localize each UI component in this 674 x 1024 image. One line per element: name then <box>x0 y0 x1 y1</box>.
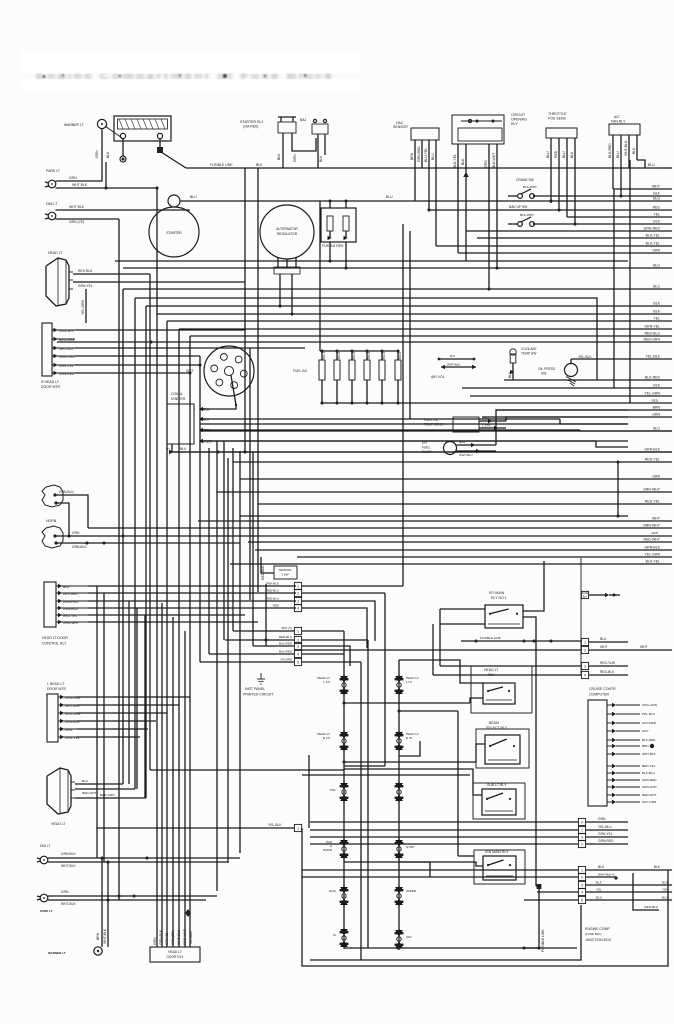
fuse HAZ HORN <box>323 838 349 860</box>
fuse IG <box>333 927 349 949</box>
fuse upper col2 <box>395 781 404 803</box>
fusible link indicator <box>581 591 620 598</box>
svg-text:DIM LT: DIM LT <box>46 202 58 206</box>
wire bus row y380 BLK-RED <box>504 379 672 381</box>
svg-text:1: 1 <box>297 584 299 588</box>
wire coil pin1 to distributor <box>201 405 236 409</box>
sub lt relay label <box>487 783 507 787</box>
svg-text:WHT-BLK-A: WHT-BLK-A <box>598 873 614 877</box>
temperature switch box <box>261 557 297 580</box>
wire lamp row 703 <box>344 702 470 704</box>
wire row 784 to bundle <box>128 601 130 784</box>
svg-text:CIRCUIT: CIRCUIT <box>511 113 526 117</box>
wire crank sw vertical <box>409 231 411 419</box>
hac sensor pin labels <box>410 146 435 162</box>
coil pin labels <box>203 408 212 444</box>
svg-text:GRN-RED: GRN-RED <box>598 839 614 843</box>
terminal arrow below relay <box>463 172 469 261</box>
label FUS INJ RES <box>322 244 344 248</box>
svg-text:GRN-WHT: GRN-WHT <box>642 785 657 789</box>
svg-text:GRN-BLK: GRN-BLK <box>159 929 163 945</box>
hac sensor box <box>411 128 439 246</box>
svg-text:YEL: YEL <box>653 317 660 321</box>
wire bus row y261 unlabeled <box>115 260 628 262</box>
cruise computer pin RED-WHT <box>607 794 612 796</box>
wire bus row y479 GRN <box>240 478 672 480</box>
svg-text:IGN MAIN RLY: IGN MAIN RLY <box>485 850 509 854</box>
label HEAD LT bottom <box>51 822 66 826</box>
wire bundle center-left verticals <box>157 188 190 947</box>
svg-text:BRN: BRN <box>459 440 465 444</box>
efi main relay label <box>489 591 507 600</box>
svg-text:4: 4 <box>297 652 299 656</box>
back up switch <box>508 217 535 226</box>
svg-text:BLK-WHT: BLK-WHT <box>523 185 537 189</box>
wire starter solenoid BLU <box>180 195 672 203</box>
svg-text:GRN-BLU: GRN-BLU <box>63 607 78 611</box>
wire bus row y396 YEL-GRN <box>470 395 672 397</box>
beam select relay <box>476 729 529 768</box>
hac sensor label <box>393 121 408 129</box>
wire bus row y217 YEL <box>567 216 672 218</box>
wire center vertical B <box>367 640 369 948</box>
svg-text:EFI: EFI <box>422 441 427 445</box>
distributor cap towers <box>211 354 247 389</box>
svg-text:2: 2 <box>297 591 299 595</box>
svg-text:GRN: GRN <box>484 160 488 168</box>
junction stub YEL <box>537 888 672 896</box>
wire coil pin2 <box>201 419 628 424</box>
starter motor circle <box>149 207 199 257</box>
circuit opening relay label <box>511 113 527 126</box>
throttle position sensor label <box>548 112 567 121</box>
wire bus row y246 BLK-YEL <box>436 245 672 247</box>
wire bus row y557 YEL-GRN <box>297 556 672 558</box>
svg-text:RED-BLU: RED-BLU <box>645 332 661 336</box>
right edge wire bus <box>57 185 672 565</box>
svg-text:GRN (YE): GRN (YE) <box>69 220 84 224</box>
svg-text:GRN-RED: GRN-RED <box>642 778 657 782</box>
svg-text:GRN-RED: GRN-RED <box>644 227 661 231</box>
wire yel-blk to stub <box>97 823 302 832</box>
svg-text:RED: RED <box>653 206 661 210</box>
air flow meter AIR VOL <box>431 354 476 379</box>
circuit opening relay pin labels <box>453 153 496 168</box>
label FUSIBLE LINE <box>210 163 233 167</box>
wire bus row y321 YEL <box>167 320 672 322</box>
inst panel stub group 2 <box>294 627 301 665</box>
junction box outline <box>302 755 668 966</box>
svg-text:TEMP SENS: TEMP SENS <box>424 423 444 427</box>
stub group1 right wires <box>302 586 403 648</box>
junction stub GRN-YEL <box>310 832 628 841</box>
wire bus row y542 RED-WHT <box>248 541 672 543</box>
fuse bottom bus <box>344 946 577 949</box>
wire bus row y550 GRN-BLK <box>255 549 672 551</box>
svg-text:GRN-ORG: GRN-ORG <box>59 355 75 359</box>
svg-text:POS SENS: POS SENS <box>548 117 567 121</box>
svg-text:BLK-YEL: BLK-YEL <box>646 560 660 564</box>
svg-text:BLU: BLU <box>653 285 660 289</box>
svg-text:1: 1 <box>584 640 586 644</box>
cruise computer pin BLK-RED <box>607 739 612 741</box>
wire bus row y431 BLU <box>200 430 672 432</box>
efi main relay <box>485 605 523 628</box>
svg-text:3: 3 <box>297 599 299 603</box>
wire bus row y521 WHT <box>198 520 672 522</box>
svg-text:J SW: J SW <box>281 573 288 577</box>
svg-text:YEL-BLK: YEL-BLK <box>578 355 592 359</box>
junction stub YEL-BLU <box>310 825 628 834</box>
svg-text:4: 4 <box>584 673 586 677</box>
alternator regulator circle <box>260 205 314 259</box>
svg-text:GRN: GRN <box>652 249 660 253</box>
fuse block box <box>114 116 171 141</box>
svg-text:FUEL INJ: FUEL INJ <box>424 418 439 422</box>
wire bus row y504 RED-YEL <box>258 503 672 505</box>
wire row 789 bundle <box>136 608 138 789</box>
throttle position sensor box <box>546 128 577 226</box>
svg-text:BLK-YEL: BLK-YEL <box>646 242 660 246</box>
svg-text:RED-BLU: RED-BLU <box>266 597 279 601</box>
wire bus row y410 BRN <box>496 409 672 411</box>
svg-text:STOP: STOP <box>406 845 414 849</box>
svg-text:B-S: B-S <box>450 354 455 358</box>
svg-text:BLK-YEL: BLK-YEL <box>646 234 660 238</box>
svg-text:GRN-YEL: GRN-YEL <box>644 325 660 329</box>
wire bus row y388 BLK <box>462 387 672 389</box>
junction stub WHT-BLK <box>302 873 618 881</box>
svg-text:BLK: BLK <box>256 163 263 167</box>
label L HEAD LT DOOR MTR <box>47 682 67 691</box>
svg-text:L LO: L LO <box>323 680 330 684</box>
svg-text:WHT-BLK: WHT-BLK <box>447 363 460 367</box>
svg-text:2: 2 <box>581 875 583 879</box>
stub group1 left labels <box>266 582 280 608</box>
fuse IGN <box>395 928 412 950</box>
wire dim lt lower GRN-YEL <box>56 219 120 224</box>
coil igniter box <box>167 404 203 444</box>
svg-text:4: 4 <box>297 606 299 610</box>
svg-text:THROTTLE: THROTTLE <box>548 112 567 116</box>
lamp column verticals <box>342 631 400 930</box>
svg-text:GRN-WHT: GRN-WHT <box>643 488 661 492</box>
wire row 770 <box>150 769 344 771</box>
svg-text:PRINTED CIRCUIT: PRINTED CIRCUIT <box>243 693 274 697</box>
svg-text:WHT-BLK: WHT-BLK <box>103 928 107 944</box>
svg-text:GRN: GRN <box>652 413 660 417</box>
svg-text:RED-YEL: RED-YEL <box>63 614 77 618</box>
svg-text:BLK: BLK <box>653 384 660 388</box>
svg-text:BLK-RED: BLK-RED <box>645 376 661 380</box>
wire bus row y268 BLU <box>123 267 672 269</box>
svg-text:WHT BLK: WHT BLK <box>69 205 85 209</box>
sub lt relay <box>473 783 525 819</box>
svg-text:RED: RED <box>554 150 558 158</box>
svg-text:R HI: R HI <box>406 736 412 740</box>
svg-text:RED: RED <box>651 399 658 403</box>
headlight L HEAD LT <box>47 768 75 814</box>
svg-text:DOOR MTR: DOOR MTR <box>41 385 61 389</box>
wires from door mtr pins <box>75 330 305 375</box>
title text (blurred scan artifact) <box>20 50 360 91</box>
coil bottom terminal <box>166 444 187 454</box>
fusible link bus <box>186 167 657 169</box>
svg-text:YEL: YEL <box>596 888 602 892</box>
wire bus row y564 BLK-YEL <box>230 563 672 565</box>
label R HEAD LT DOOR MTR <box>41 380 61 389</box>
wire bus row y516 unlabeled <box>240 515 628 517</box>
wire head lt GRN-YEL <box>73 282 245 288</box>
svg-text:No.2: No.2 <box>337 352 341 359</box>
svg-text:HEAD LT DOOR: HEAD LT DOOR <box>42 636 68 640</box>
svg-text:WHT-BLK: WHT-BLK <box>59 347 74 351</box>
wire bus row y462 RED-YEL <box>233 461 672 463</box>
svg-text:RED-YLW: RED-YLW <box>600 661 616 665</box>
circuit opening relay <box>452 115 504 291</box>
back up switch label <box>509 205 534 217</box>
wire stop row <box>399 862 430 877</box>
fusible link bus lower <box>461 636 581 643</box>
svg-text:GRN: GRN <box>95 150 99 158</box>
svg-text:STARTER RLJ: STARTER RLJ <box>240 120 263 124</box>
svg-text:ORG-GRN: ORG-GRN <box>642 703 657 707</box>
cruise computer pin GRN-WHT <box>607 786 612 788</box>
connector HEAD LT DOOR CONTROL RLY <box>44 582 88 627</box>
svg-text:FUSIBLE LINE: FUSIBLE LINE <box>210 163 233 167</box>
fan relay pin labels <box>608 140 636 158</box>
park lt bottom <box>37 894 53 913</box>
svg-text:RLY NO 1: RLY NO 1 <box>491 596 507 600</box>
svg-text:WHT-BLK: WHT-BLK <box>642 752 657 756</box>
fuse STOP <box>395 838 415 860</box>
svg-text:BLU: BLU <box>546 151 550 158</box>
wire horn2 row GRN-BLK <box>56 541 240 549</box>
svg-text:REGULATOR: REGULATOR <box>277 232 298 236</box>
svg-text:GRN-BLK: GRN-BLK <box>644 448 660 452</box>
svg-text:TEMPOD: TEMPOD <box>279 568 293 572</box>
svg-text:GRN-RED: GRN-RED <box>63 600 79 604</box>
svg-text:BLK-RED: BLK-RED <box>279 650 293 654</box>
ground symbol inst panel <box>257 673 265 684</box>
stub group2 labels <box>279 626 293 662</box>
svg-text:RED-WHT: RED-WHT <box>82 791 97 795</box>
connector L HEAD LT DOOR MTR <box>47 694 77 742</box>
wire fuse block diagonal to fusible link <box>161 152 186 168</box>
svg-text:IG: IG <box>333 933 337 937</box>
wire red-blu corner <box>633 873 659 910</box>
svg-text:GRN-RED: GRN-RED <box>417 146 421 162</box>
svg-text:JUNCTION BOX: JUNCTION BOX <box>585 938 612 942</box>
svg-text:3: 3 <box>581 883 583 887</box>
svg-text:IGN: IGN <box>406 935 412 939</box>
svg-text:BLK-RED: BLK-RED <box>608 143 612 158</box>
fusible link vertical <box>524 884 545 952</box>
svg-text:BLU: BLU <box>63 585 70 589</box>
head lamp fuse R LO <box>317 730 348 752</box>
coil and igniter label <box>171 392 186 401</box>
stub group2 left wires <box>200 631 294 662</box>
stub group2 right wires <box>302 631 368 666</box>
wire backup sw vertical <box>402 224 404 586</box>
wire park lt WHT-BLK <box>48 898 206 906</box>
svg-text:BEAM: BEAM <box>489 721 499 725</box>
junction stub BLU <box>524 896 672 904</box>
svg-text:BRN: BRN <box>642 744 649 748</box>
svg-text:RED-WHT: RED-WHT <box>642 793 657 797</box>
svg-text:4: 4 <box>581 820 583 824</box>
svg-text:FUEL: FUEL <box>422 446 431 450</box>
svg-text:BLK-RED: BLK-RED <box>279 642 293 646</box>
head lamp fuse L HI <box>395 674 419 696</box>
svg-text:2: 2 <box>297 638 299 642</box>
svg-text:GRN-YEL: GRN-YEL <box>59 364 74 368</box>
svg-text:HEAD LT: HEAD LT <box>48 251 63 255</box>
wire row 798 bundle <box>144 615 146 798</box>
wires L door mtr rows <box>77 697 190 737</box>
svg-text:ALTERNATOR: ALTERNATOR <box>276 227 298 231</box>
label HORN <box>46 519 57 523</box>
fuel inj temp sens <box>424 417 628 433</box>
warner lt bottom wires <box>96 858 108 947</box>
svg-text:GRN-YEL: GRN-YEL <box>78 284 93 288</box>
wire center vertical C <box>344 593 385 766</box>
warner light indicator WARNER LT <box>64 119 107 128</box>
svg-text:BLK: BLK <box>461 158 465 165</box>
wire alternator drops <box>278 274 293 316</box>
cruise computer pin PPL-BLU <box>607 713 612 715</box>
wire horn1 upper <box>55 495 88 528</box>
svg-text:WHT-BLK: WHT-BLK <box>63 592 78 596</box>
beam select relay label <box>486 721 508 730</box>
fuel injection resistor box <box>321 199 356 242</box>
svg-text:RED-YEL: RED-YEL <box>645 458 660 462</box>
svg-text:RED-WHT: RED-WHT <box>183 929 187 945</box>
L door mtr pin labels <box>65 696 81 740</box>
svg-text:YEL-GRN: YEL-GRN <box>644 553 660 557</box>
wire bus row y238 BLK-YEL <box>477 237 672 239</box>
svg-text:BLU: BLU <box>653 427 660 431</box>
injector resistor bank bus top <box>320 201 398 351</box>
svg-text:RED-GRN: RED-GRN <box>644 338 661 342</box>
ign main relay label <box>485 850 509 854</box>
svg-text:STARTER: STARTER <box>166 231 182 235</box>
svg-text:RED-BLK: RED-BLK <box>600 670 615 674</box>
svg-text:L HI: L HI <box>406 680 412 684</box>
svg-text:GRN-BLK: GRN-BLK <box>61 852 76 856</box>
cruise computer pin BRN <box>607 745 612 747</box>
square terminal <box>157 139 163 153</box>
wire bus row y329 GRN-YEL <box>179 328 672 330</box>
injector resistor No.1 <box>320 349 323 352</box>
fuse TAIL <box>330 781 349 803</box>
svg-text:R LO: R LO <box>323 736 331 740</box>
svg-text:RED: RED <box>273 604 280 608</box>
svg-text:BLK: BLK <box>583 596 588 599</box>
throttle sensor pin labels <box>546 150 574 158</box>
label INST PANEL PRINTED CIRCUIT <box>243 687 274 697</box>
svg-text:GRN: GRN <box>72 531 80 535</box>
svg-text:GRN: GRN <box>69 176 77 180</box>
oil press switch <box>538 355 592 377</box>
svg-text:YEL-BLU: YEL-BLU <box>598 825 612 829</box>
wire head lt BLU <box>75 779 123 784</box>
svg-text:ENG: ENG <box>329 889 336 893</box>
svg-text:WHT-BLK: WHT-BLK <box>61 902 76 906</box>
wire warner lt stem <box>105 126 122 138</box>
svg-text:EFI MAIN: EFI MAIN <box>489 591 505 595</box>
wire park lt lower WHT-BLK <box>56 183 159 190</box>
wire fan relay to right <box>637 160 645 168</box>
dim lt bottom <box>37 844 51 864</box>
wire starter relay right pin <box>292 133 316 162</box>
svg-text:RED-YEL: RED-YEL <box>645 500 660 504</box>
head lamp fuse R HI <box>395 730 419 752</box>
svg-text:FUEL INJ: FUEL INJ <box>293 369 308 373</box>
wire head lt down <box>81 289 86 323</box>
cruise computer connector <box>588 700 657 806</box>
label HEAD LT DOOR CONTROL RLY <box>42 636 68 646</box>
wires into stub column <box>302 650 581 675</box>
headlight R HEAD LT <box>46 251 73 306</box>
svg-text:GRN: GRN <box>652 475 660 479</box>
svg-text:L HEAD LT: L HEAD LT <box>47 682 65 686</box>
svg-text:WHT-BLU: WHT-BLU <box>624 140 628 156</box>
horn lower <box>42 526 63 548</box>
svg-text:WHT-BLU: WHT-BLU <box>459 453 473 457</box>
svg-text:TEMP SW: TEMP SW <box>521 352 537 356</box>
wire bus row y253 GRN <box>458 252 672 254</box>
svg-text:RED-BLU: RED-BLU <box>644 905 658 909</box>
svg-text:OIL PRESS: OIL PRESS <box>538 367 556 371</box>
svg-text:BLU: BLU <box>662 896 668 900</box>
svg-text:SUB LT RLY: SUB LT RLY <box>487 783 507 787</box>
svg-text:BLF: BLF <box>596 881 602 885</box>
svg-text:GRN-WHT: GRN-WHT <box>59 329 75 333</box>
bundle bottom labels <box>153 929 193 945</box>
svg-text:BLK: BLK <box>598 865 605 869</box>
label BLK on fusible link <box>256 163 263 167</box>
crank open switch label <box>516 178 537 189</box>
cruise computer pin ORG-GRN <box>607 704 612 706</box>
svg-text:FAN RLY: FAN RLY <box>611 120 626 124</box>
svg-text:1: 1 <box>581 828 583 832</box>
svg-text:HEAD LT: HEAD LT <box>168 950 182 954</box>
svg-text:YEL-BLK: YEL-BLK <box>646 355 661 359</box>
svg-text:RED-BLU: RED-BLU <box>279 635 292 639</box>
wire ign relay vertical <box>458 720 474 856</box>
fan relay box <box>609 124 640 198</box>
warner lt bottom <box>48 947 102 955</box>
cruise computer pin GRY-RED <box>607 722 612 724</box>
svg-text:BLK-BLU: BLK-BLU <box>642 771 655 775</box>
injector resistor No.2 <box>335 349 338 352</box>
svg-text:(HIA RES): (HIA RES) <box>243 125 258 129</box>
wire bus row y452 GRN-BLK <box>170 451 672 453</box>
svg-text:2: 2 <box>584 648 586 652</box>
svg-text:BLK: BLK <box>180 447 187 451</box>
svg-text:GRN: GRN <box>153 937 157 945</box>
svg-text:GRN-RED: GRN-RED <box>59 372 75 376</box>
svg-text:No.3: No.3 <box>352 352 356 359</box>
svg-text:1: 1 <box>297 826 299 830</box>
injector resistor No.4 <box>365 349 368 352</box>
label FUEL INJ <box>293 369 308 373</box>
cruise computer pin GRY-GRN <box>607 801 612 803</box>
injector resistor bank <box>319 349 402 404</box>
svg-text:BAK UP SW: BAK UP SW <box>509 205 528 209</box>
svg-text:TAIL: TAIL <box>330 788 337 792</box>
